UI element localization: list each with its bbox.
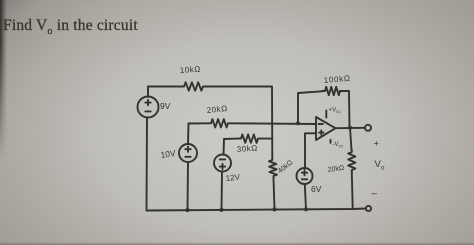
svg-text:+Vcc: +Vcc xyxy=(329,107,342,114)
svg-text:9V: 9V xyxy=(160,101,171,111)
svg-text:20kΩ: 20kΩ xyxy=(327,165,344,174)
svg-text:6V: 6V xyxy=(311,184,322,194)
svg-text:10V: 10V xyxy=(160,148,177,160)
svg-text:12V: 12V xyxy=(225,172,241,183)
svg-text:100kΩ: 100kΩ xyxy=(323,74,351,85)
svg-text:40kΩ: 40kΩ xyxy=(277,159,294,175)
svg-text:30kΩ: 30kΩ xyxy=(237,144,259,154)
svg-text:-Vcc: -Vcc xyxy=(333,141,344,148)
svg-text:20kΩ: 20kΩ xyxy=(206,104,228,115)
svg-text:Vo: Vo xyxy=(375,159,385,172)
svg-text:+: + xyxy=(374,139,380,150)
svg-text:10kΩ: 10kΩ xyxy=(180,65,202,75)
svg-text:–: – xyxy=(372,189,378,200)
